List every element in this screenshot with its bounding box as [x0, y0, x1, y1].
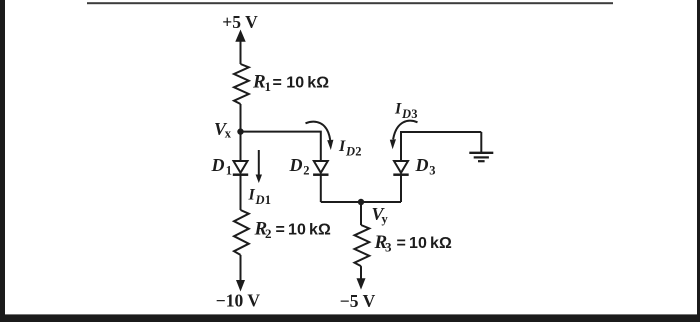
svg-text:D: D — [255, 193, 265, 207]
svg-text:1: 1 — [265, 79, 272, 94]
svg-text:3: 3 — [411, 107, 417, 121]
svg-text:I: I — [338, 138, 346, 155]
current arrow ID1 — [256, 150, 262, 183]
svg-text:2: 2 — [355, 145, 361, 159]
ground — [469, 153, 493, 161]
wire node Vy to R3 — [360, 202, 362, 225]
resistor R3 — [355, 225, 370, 266]
label D2 — [289, 155, 310, 178]
node Vy — [358, 199, 364, 205]
node Vx — [237, 128, 243, 134]
current arrow ID3 (curved) — [390, 121, 418, 150]
wire bottom rail D2 to D3 — [321, 201, 401, 203]
svg-text:2: 2 — [303, 164, 309, 178]
svg-text:−5 V: −5 V — [340, 291, 376, 311]
svg-text:D: D — [345, 145, 355, 159]
label D1 — [211, 155, 233, 178]
svg-text:1: 1 — [226, 164, 232, 178]
wire R3 to -5 V arrow — [357, 266, 366, 290]
diode D2 — [313, 161, 328, 175]
svg-text:x: x — [225, 127, 232, 141]
wire D1 to R2 — [240, 175, 242, 210]
resistor R1 — [234, 64, 249, 104]
wire node Vx to D2 corner — [241, 132, 321, 161]
svg-text:= 10 kΩ: = 10 kΩ — [276, 222, 331, 239]
label ID2 — [338, 138, 362, 159]
wire D3 to bottom rail — [400, 175, 402, 202]
diode D3 — [393, 161, 408, 175]
label R2 = 10 kOhm — [254, 219, 331, 242]
wire R2 to -10 V arrow — [236, 255, 245, 292]
wire D2 to bottom rail — [320, 175, 322, 202]
svg-text:I: I — [248, 187, 256, 204]
label ID1 — [248, 187, 272, 208]
wire R1 bottom to node Vx — [240, 104, 242, 132]
current arrow ID2 (curved) — [306, 122, 334, 150]
svg-text:= 10 kΩ: = 10 kΩ — [273, 75, 330, 92]
svg-text:D: D — [415, 155, 429, 175]
svg-text:I: I — [394, 101, 402, 118]
label R3 = 10 kOhm — [374, 232, 452, 255]
svg-text:D: D — [211, 155, 225, 175]
label ID3 — [394, 101, 418, 122]
svg-text:3: 3 — [385, 240, 392, 255]
svg-text:D: D — [401, 107, 411, 121]
svg-text:1: 1 — [265, 193, 271, 207]
wire node Vx to D1 — [240, 132, 242, 161]
diode D1 — [233, 161, 248, 175]
+5 V supply arrow — [235, 30, 245, 65]
svg-text:−10 V: −10 V — [216, 291, 261, 311]
resistor R2 — [234, 210, 249, 255]
label D3 — [415, 155, 436, 178]
svg-text:3: 3 — [429, 164, 435, 178]
svg-text:2: 2 — [265, 226, 272, 241]
wire D3 up to ground rail — [401, 132, 481, 161]
svg-text:D: D — [289, 155, 303, 175]
label R1 = 10 kOhm — [252, 72, 329, 95]
label Vx — [214, 119, 232, 140]
label Vy — [372, 204, 389, 226]
svg-text:= 10 kΩ: = 10 kΩ — [397, 235, 452, 252]
svg-text:+5 V: +5 V — [222, 12, 258, 32]
svg-text:y: y — [382, 212, 389, 226]
wire ground stub — [480, 132, 482, 152]
